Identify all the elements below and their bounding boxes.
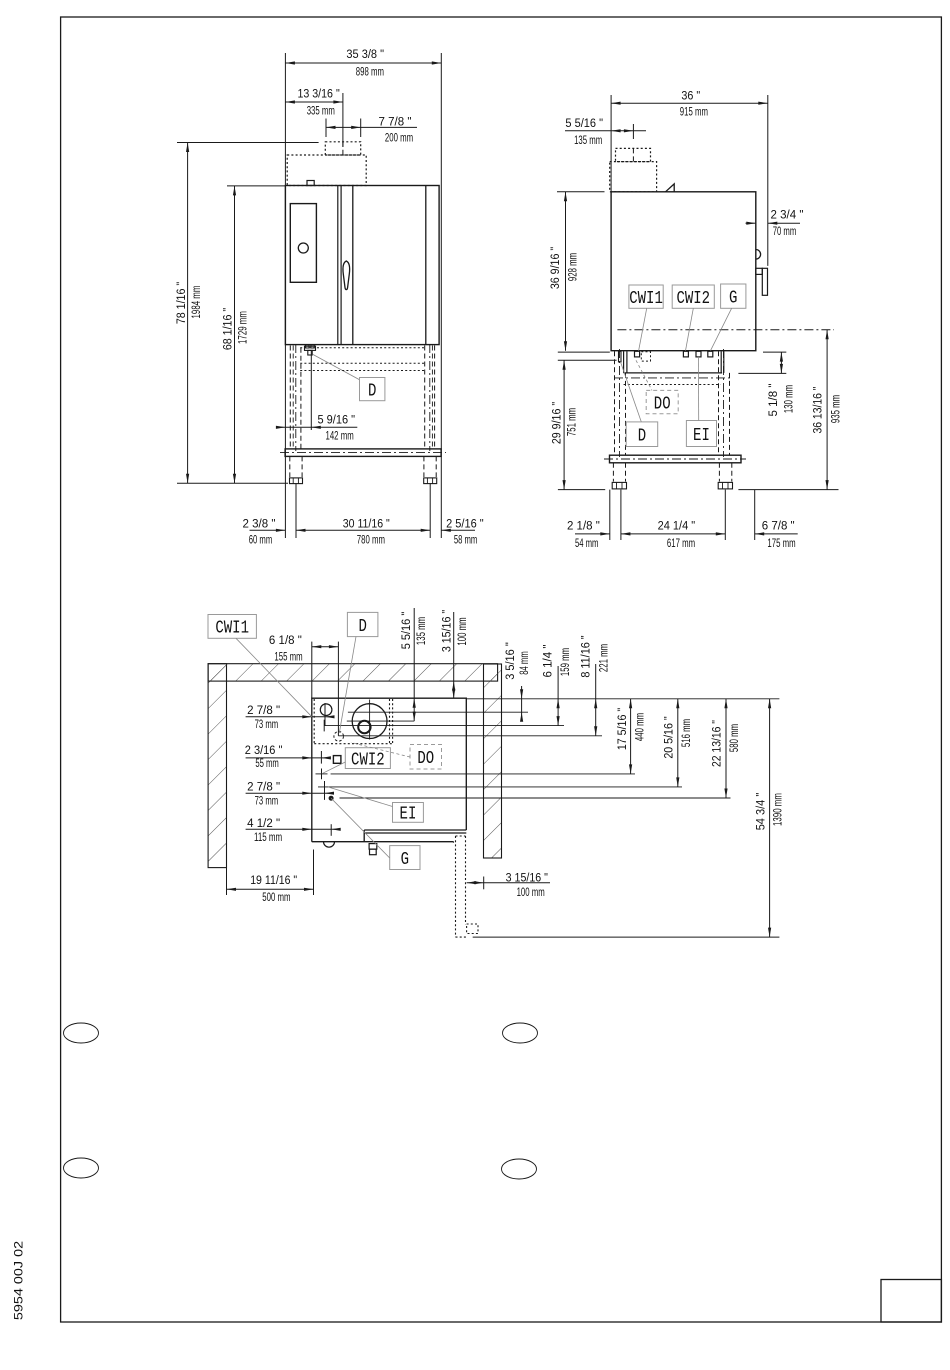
plan view: dimension vertical 1390mm [769,699,771,937]
svg-text:35 3/8 ": 35 3/8 " [346,49,384,61]
svg-text:60 mm: 60 mm [249,535,273,547]
svg-text:6 7/8 ": 6 7/8 " [762,521,795,533]
front view: left foot [290,478,303,484]
svg-text:928 mm: 928 mm [568,253,580,281]
side view: dotted stub rect [641,352,650,361]
plan view: dimension 6 1/8in 155mm [312,646,339,648]
side view: dimension 36 13/16in 935mm counter height [826,330,828,490]
svg-text:55 mm: 55 mm [255,758,279,770]
plan view: wall right column extension below [483,877,485,890]
svg-text:58 mm: 58 mm [454,535,478,547]
front view: chimney small dotted rect [325,142,360,155]
side view: leader D to stub [621,362,642,422]
svg-text:2 3/8 ": 2 3/8 " [243,518,276,530]
svg-text:155 mm: 155 mm [274,652,302,664]
side view: CWI1 connection stub [635,351,640,357]
front view: dimension 5 9/16in 142mm drain offset [280,426,357,428]
plan view: CWI1 tick [324,703,326,726]
plan view: G point dot [329,796,333,800]
side view: floor extension line left segment [558,489,605,491]
svg-text:EI: EI [693,425,710,446]
plan view: CWI1 circle [320,704,332,716]
side view: bottom dimension line 2 1/8 - 24 1/4 - 6 7/8 [575,533,610,535]
front view: stand rail dotted lines [300,362,426,364]
side view: extension line right width dim [767,95,769,266]
front view: oven body outline [285,186,439,345]
svg-text:70 mm: 70 mm [773,226,797,238]
svg-text:CWI1: CWI1 [215,618,249,639]
plan view: dimension vertical 440mm [630,699,632,774]
svg-text:DO: DO [654,393,671,414]
plan view: leader D to drain [339,637,356,733]
svg-text:5 1/8 ": 5 1/8 " [768,384,780,417]
side view: door handle bar [762,268,767,295]
side view: leader CWI1 to stub [639,308,647,351]
side view: DO dashed label box [646,390,678,413]
side view: leader CWI2 to stub [686,308,694,350]
plan view: dimension 2 7/8in 73mm CWI1 [246,716,334,718]
front view: dimension 35 3/8in 898mm width line [285,62,441,64]
plan view: 221mm reference line [338,735,602,737]
plan view: G label box [390,846,420,870]
plan view: dimension 3 15/16in 100mm right [467,882,550,884]
plan view: dotted box bottom [467,924,478,934]
svg-text:898 mm: 898 mm [356,67,384,79]
svg-text:CWI2: CWI2 [676,288,710,309]
front view: drain extension tick line [310,351,312,431]
side view: oven body outline [611,192,756,351]
svg-text:115 mm: 115 mm [254,832,282,844]
plan view: dimension vertical 84mm [521,686,523,719]
plan view: CWI2 label box [345,748,390,769]
plan view: oven body outline [312,698,467,842]
svg-text:175 mm: 175 mm [767,538,795,550]
svg-text:13 3/16 ": 13 3/16 " [297,89,339,101]
front view: chimney large dotted rect [287,155,366,186]
plan view: D label box [347,612,378,636]
plan view: gas connection bump on front [369,844,377,850]
side view: D connection stub [619,351,622,362]
svg-text:159 mm: 159 mm [560,648,572,676]
svg-text:100 mm: 100 mm [517,887,545,899]
svg-text:221 mm: 221 mm [599,644,611,672]
svg-text:2 1/8 ": 2 1/8 " [567,521,600,533]
front view: leader line to D label [313,355,360,381]
svg-text:200 mm: 200 mm [385,133,413,145]
side view: EI label box [686,421,716,447]
side view: D label box [626,422,658,447]
svg-text:4 1/2 ": 4 1/2 " [247,818,280,830]
svg-text:440 mm: 440 mm [635,713,647,741]
plan view: oven top extension line right [466,698,779,700]
side view: chimney large dotted rect [610,162,657,192]
plan view: dimension vertical 516mm [677,699,679,787]
svg-text:DO: DO [417,748,434,769]
side view: dimension 36in 915mm depth [611,102,768,104]
svg-text:54 3/4 ": 54 3/4 " [756,793,768,831]
side view: stand frame verticals [623,351,625,373]
front view: extension line oven top height [227,185,285,187]
side view: stand top rail dash-dot [614,377,730,379]
svg-text:5954 00J 02: 5954 00J 02 [12,1241,26,1321]
side view: CWI1 label box [629,285,663,308]
punch hole ellipse top-left [64,1023,99,1043]
plan view: dotted pipe column below oven [455,836,457,937]
side view: bottom extension verticals [609,490,611,540]
plan view: 155mm extension vertical [337,642,339,736]
svg-text:24 1/4 ": 24 1/4 " [658,521,696,533]
front view: control panel rectangle [290,204,316,283]
plan view: dimension 4 1/2in 115mm G [246,828,340,830]
svg-text:1729 mm: 1729 mm [238,311,250,344]
side view: leader EI to stub [697,357,699,421]
svg-text:84 mm: 84 mm [519,651,531,675]
svg-text:30 11/16 ": 30 11/16 " [343,518,390,530]
plan view: DO dashed label box [410,745,442,770]
side view: counter level dash-dot line [617,329,834,331]
svg-text:73 mm: 73 mm [255,795,279,807]
front view: right panel line [425,186,427,345]
front view: left foot legs below rail [289,456,291,477]
svg-text:751 mm: 751 mm [567,408,579,436]
svg-text:54 mm: 54 mm [575,538,599,550]
svg-text:36 ": 36 " [681,91,700,103]
side view: CWI2 label box [672,285,714,308]
plan view: dimension 2 3/16in 55mm CWI2 [246,757,331,759]
side view: floor extension line right segment [738,489,838,491]
svg-text:19 11/16 ": 19 11/16 " [250,875,297,887]
front view: top extension line overall height [177,142,319,144]
plan view: leader G [331,798,390,858]
side view: stand bottom rail band [610,455,742,463]
svg-text:2 3/16 ": 2 3/16 " [245,745,283,757]
front view: leg center extension lines down [295,484,297,538]
front view: bottom extension line floor [177,482,288,484]
plan view: 440mm reference line [316,773,328,775]
svg-text:3 15/16 ": 3 15/16 " [442,610,454,652]
svg-text:5 5/16 ": 5 5/16 " [401,612,413,650]
svg-text:335 mm: 335 mm [307,106,335,118]
punch hole ellipse bottom-left [64,1158,99,1178]
svg-text:17 5/16 ": 17 5/16 " [617,708,629,750]
plan view: CWI1 label box [208,615,256,639]
svg-text:135 mm: 135 mm [416,617,428,645]
side view: door handle bracket [756,268,763,274]
front view: extension line left (oven left edge / width dim) [284,53,286,538]
front view: stand left leg lines [289,346,291,449]
side view: extension line left width dim [610,95,612,192]
front view: dimension 78 1/16in 1984mm overall height [187,143,189,484]
plan view: vent big circle crosshair [347,720,414,722]
plan view: 580mm reference line [340,797,731,799]
front view: extension line right (oven width dim) [440,53,442,538]
plan view: dashed leader DO [351,743,410,758]
plan view: dimension 19 11/16in 500mm [227,888,314,890]
svg-text:G: G [729,287,737,308]
svg-text:36 13/16 ": 36 13/16 " [813,387,825,434]
side view: chimney small dotted rect [616,148,651,161]
svg-text:3 5/16 ": 3 5/16 " [505,642,517,680]
front view: door hinge double line [337,186,339,345]
svg-text:617 mm: 617 mm [667,538,695,550]
svg-text:935 mm: 935 mm [831,395,843,423]
svg-text:EI: EI [400,804,417,825]
front view: stand bottom rail band [285,449,441,457]
svg-text:6 1/4 ": 6 1/4 " [543,645,555,678]
front view: door edge line [352,186,354,345]
plan view: dimension vertical 221mm [595,664,597,736]
plan view: wall hatch top band [208,664,498,681]
plan view: wall hatch left band [208,664,226,868]
front view: D label box [360,378,385,401]
punch hole ellipse top-right [503,1023,538,1043]
svg-text:5 5/16 ": 5 5/16 " [565,118,603,130]
front view: right foot legs below rail [423,456,425,477]
front view: dimension 68 1/16in 1729mm height [234,186,236,483]
svg-text:500 mm: 500 mm [262,892,290,904]
front view: dimension 13 3/16in 335mm [285,101,343,103]
svg-text:2 3/4 ": 2 3/4 " [771,210,804,222]
side view: dimension 2 3/4in 70mm [746,222,756,224]
front view: drain fitting D under oven [305,346,316,350]
svg-text:G: G [401,849,409,870]
front view: control knob circle [298,243,308,253]
plan view: dimension vertical 580mm [725,699,727,798]
plan view: vent zone dotted rect [313,699,315,744]
side view: dimension 5 1/8in 130mm [763,351,786,353]
side view: CWI2 connection stub [683,351,688,357]
svg-text:68 1/16 ": 68 1/16 " [223,308,235,350]
svg-text:2 7/8 ": 2 7/8 " [247,705,280,717]
side view: leader G to stub [711,308,732,350]
svg-text:5 9/16 ": 5 9/16 " [318,414,356,426]
punch hole ellipse bottom-right [502,1159,537,1179]
svg-text:6 1/8 ": 6 1/8 " [269,635,302,647]
plan view: CWI2 port square [333,756,341,764]
plan view: leader EI [328,787,392,807]
svg-text:78 1/16 ": 78 1/16 " [176,282,188,324]
svg-text:1984 mm: 1984 mm [191,286,203,319]
svg-text:D: D [358,616,366,637]
plan view: drain small dashed circle [334,732,344,742]
svg-text:142 mm: 142 mm [326,431,354,443]
svg-text:22 13/16 ": 22 13/16 " [712,720,724,767]
svg-text:73 mm: 73 mm [255,719,279,731]
svg-text:1390 mm: 1390 mm [773,793,785,826]
side view: stand left leg lines [614,351,616,455]
front view: vent cap on oven top [307,181,314,186]
plan view: leader CWI2 [322,762,345,774]
plan view: wall hatch right column [484,664,502,858]
svg-text:2 7/8 ": 2 7/8 " [247,781,280,793]
svg-text:100 mm: 100 mm [457,617,469,645]
plan view: 516mm reference line [318,786,682,788]
svg-text:130 mm: 130 mm [784,385,796,413]
side view: stand top rail dotted [624,384,721,386]
front view: stand top dotted line [300,347,426,349]
plan view: vent inner circle [358,721,370,733]
plan view: dimension 2 7/8in 73mm EI [246,792,334,794]
plan view: wall inner face extension below [226,868,228,895]
front view: door handle teardrop [343,261,350,290]
side view: G label box [721,284,746,308]
side view: dimension 5 5/16in 135mm chimney offset [565,130,646,132]
title block box bottom-right [881,1280,941,1323]
plan view: leader CWI1 [236,638,312,717]
plan view: EI point cross [324,781,326,793]
svg-text:7 7/8 ": 7 7/8 " [379,117,412,129]
plan view: oven front hinge bump semicircle [324,842,335,848]
svg-text:135 mm: 135 mm [574,135,602,147]
side view: stand right leg lines [718,351,720,455]
svg-text:20 5/16 ": 20 5/16 " [664,716,676,758]
side view: dotted leader to DO [636,360,652,390]
svg-text:CWI2: CWI2 [351,749,385,770]
side view: door knob semicircle [756,250,761,260]
plan view: bottom extension line 1390 [473,936,780,938]
side view: stand top rail solid [624,372,723,374]
plan view: CWI2 point cross [321,769,323,780]
plan view: 159mm reference line with tick [324,725,564,727]
front view: bottom dimension line 2 3/8 - 30 11/16 - 2 5/16 [250,529,286,531]
plan view: oven left edge extension up [311,642,313,699]
side view: right foot [718,482,732,489]
svg-text:516 mm: 516 mm [681,719,693,747]
front view: dimension 7 7/8in 200mm chimney width [326,126,417,128]
svg-text:D: D [368,380,376,401]
svg-text:29 9/16 ": 29 9/16 " [552,402,564,444]
svg-text:36 9/16 ": 36 9/16 " [550,247,562,289]
plan view: top dimension 135mm vertical [413,608,415,721]
svg-text:3 15/16 ": 3 15/16 " [506,872,548,884]
svg-text:8 11/16 ": 8 11/16 " [581,635,593,677]
svg-text:580 mm: 580 mm [729,724,741,752]
front view: right foot [424,478,437,484]
plan view: dimension vertical 159mm [557,666,559,726]
svg-text:915 mm: 915 mm [680,107,708,119]
side view: G connection stub [708,351,713,357]
svg-text:2 5/16 ": 2 5/16 " [446,518,484,530]
plan view: vent big circle [352,704,387,739]
side view: left foot legs below rail [612,463,614,482]
front view: stand right leg lines [424,346,426,449]
plan view: oven left extension below [313,850,315,896]
plan view: 84mm reference line [348,711,528,713]
svg-text:D: D [638,426,646,447]
side view: right foot legs below rail [718,463,720,482]
plan view: top dimension 100mm vertical [453,612,455,698]
svg-text:780 mm: 780 mm [357,535,385,547]
side view: vent flap triangle on top [666,184,675,192]
side view: EI connection stub [696,351,701,357]
side view: dimension 29 9/16in 751mm stand height [558,359,617,361]
side view: dimension 36 9/16in 928mm oven height [557,191,605,193]
side view: left foot [612,482,626,489]
svg-text:CWI1: CWI1 [629,288,663,309]
plan view: EI label box [393,803,424,823]
